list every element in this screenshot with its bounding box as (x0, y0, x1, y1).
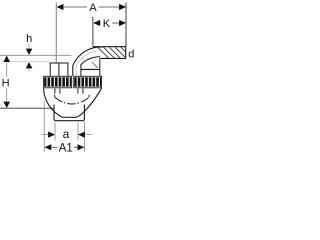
dimension A1 arrow right (pointing right) (78, 144, 85, 150)
dimension h lower arrow (pointing up) (26, 62, 33, 68)
dimension K extension line left (92, 17, 94, 46)
dimension a arrow left (pointing right) (48, 132, 55, 138)
svg-text:A1: A1 (59, 142, 73, 154)
dimension H arrow top (pointing up) (3, 56, 10, 62)
left socket right wall (67, 63, 69, 76)
svg-text:H: H (2, 77, 10, 89)
dimension a leader left (42, 134, 49, 136)
svg-text:A: A (89, 2, 97, 14)
dimension h upper arrow (pointing down) (28, 43, 30, 49)
dimension A arrow right (119, 4, 126, 10)
left socket left wall (49, 63, 51, 76)
dimension a extension line left (54, 122, 56, 141)
left nut (44, 76, 72, 88)
h lower reference line (11, 61, 51, 63)
left socket top edge (50, 62, 69, 64)
dimension A1 line (51, 146, 58, 148)
svg-text:a: a (63, 127, 70, 141)
dimension H arrow bottom (pointing down) (3, 102, 10, 108)
elbow middle faint arc (77, 51, 97, 76)
extension line from body right (83, 122, 85, 152)
dimension A arrow left (57, 4, 64, 10)
dimension a arrow right (pointing left) (78, 132, 85, 138)
right socket right wall (99, 58, 101, 76)
bottom reference line (0, 107, 54, 109)
dimension a extension line right (77, 122, 79, 141)
outlet pipe bottom edge (100, 57, 126, 59)
extension line from body left (43, 101, 45, 152)
dimension a leader right (85, 134, 92, 136)
dimension A line (57, 6, 87, 8)
dimension A extension line right (shared with K, continues as pipe right edge) (125, 3, 127, 47)
elbow outer curve (73, 47, 103, 76)
dip tube walls below nuts (54, 89, 56, 94)
right socket rim (81, 68, 100, 70)
trap body bowl (44, 88, 102, 117)
svg-text:d: d (128, 48, 134, 60)
dimension A extension line left (55, 3, 57, 63)
dimension K arrow right (119, 20, 126, 26)
dimension K arrow left (93, 20, 100, 26)
dimension H line (6, 56, 8, 77)
right nut (74, 76, 102, 88)
dimension K line (94, 22, 101, 24)
svg-text:K: K (103, 18, 111, 30)
top reference line (0, 54, 72, 56)
elbow inner curve (81, 57, 100, 77)
trap body bottom flange (54, 105, 84, 121)
left socket centre line (58, 63, 60, 76)
outlet pipe top edge (93, 46, 126, 48)
dimension A1 arrow left (pointing left) (44, 144, 51, 150)
outlet pipe right edge (125, 47, 127, 59)
outlet pipe hatching (97, 47, 138, 59)
trap inner weir curve (dash-dot) (54, 95, 56, 98)
elbow bend hatch lines (92, 62, 98, 68)
